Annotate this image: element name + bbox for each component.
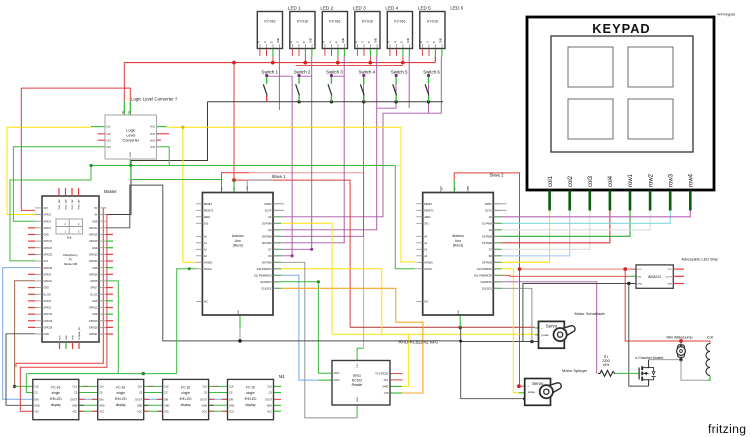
svg-text:-: - [541, 340, 542, 344]
svg-text:8*8 LED: 8*8 LED [180, 397, 193, 401]
svg-text:LED 5: LED 5 [418, 6, 431, 11]
svg-text:CLK: CLK [229, 386, 234, 389]
svg-text:GPIO2: GPIO2 [44, 214, 52, 217]
svg-text:ID_SC: ID_SC [90, 293, 97, 296]
svg-text:D10 PWM/SS: D10 PWM/SS [477, 268, 492, 271]
svg-text:FC-16: FC-16 [246, 385, 255, 389]
svg-text:3.3V: 3.3V [357, 363, 359, 368]
raspberry pi master box [42, 196, 99, 342]
svg-text:pulse: pulse [542, 333, 550, 337]
green stub RFID ANT2 from blue wire [318, 379, 332, 381]
wire purple switch2 into LED2 column [298, 74, 311, 77]
green stub Slave2 pin for keypad col3 [493, 248, 501, 250]
wire red branch down to mini waterpump and coil [625, 269, 710, 343]
gray stub Slave2 D0 [493, 203, 506, 205]
svg-text:CLK: CLK [34, 386, 39, 389]
svg-text:Adressable LED Strip: Adressable LED Strip [682, 258, 718, 262]
inductor coil L1 [706, 344, 710, 376]
wire red from LLC top pin2 around left to Raspberry Pi 3V3 [21, 88, 130, 210]
svg-text:Arduino: Arduino [232, 234, 244, 238]
svg-text:Switch 5: Switch 5 [391, 70, 408, 75]
svg-text:GND: GND [130, 152, 132, 157]
svg-text:VCC: VCC [267, 410, 272, 413]
green stub Slave1 bottom GND [239, 315, 241, 329]
svg-text:CTS: CTS [384, 392, 389, 395]
junction dot WS8212 VCC branch to pump [623, 267, 627, 271]
green stub Slave2 bottom GND [459, 315, 461, 328]
svg-text:DIN: DIN [34, 398, 38, 401]
svg-text:D0/RX: D0/RX [264, 203, 271, 206]
svg-text:HV4: HV4 [150, 146, 155, 149]
svg-text:D10 PWM/SS: D10 PWM/SS [257, 268, 272, 271]
svg-text:N/C: N/C [424, 301, 428, 304]
wire red Slave2 D11 to WS8212 DIN [501, 275, 629, 276]
svg-text:GND: GND [99, 404, 105, 407]
wire red riser from LLC top pin1 to red bus [123, 63, 125, 102]
svg-text:GND: GND [34, 404, 40, 407]
LED matrix module FC-16 #1 [33, 379, 79, 419]
svg-text:GPIO15: GPIO15 [89, 234, 98, 237]
svg-text:Switch 1: Switch 1 [261, 70, 278, 75]
svg-text:Logic: Logic [126, 129, 135, 133]
svg-text:CLK: CLK [202, 386, 207, 389]
wire black switch ground bus [208, 101, 444, 103]
wire red LED6 pin3 drop at right end of bus [434, 57, 436, 63]
svg-text:GND: GND [375, 38, 377, 43]
matrix module 1-2 chain wires [79, 385, 98, 387]
svg-text:G: G [427, 41, 429, 43]
raspberry pi right pins [99, 207, 106, 209]
svg-text:D9 PWM: D9 PWM [262, 261, 272, 264]
svg-text:D13/SCK: D13/SCK [262, 287, 272, 290]
wire green bus from LLC GND area to Slave2 [91, 165, 395, 167]
svg-text:ID_SD: ID_SD [44, 293, 51, 296]
wire yellow drop to Slave1 A4 [183, 127, 196, 262]
svg-text:4x4 Keypad: 4x4 Keypad [717, 13, 735, 17]
svg-text:RFID-RC522-v2 NFC: RFID-RC522-v2 NFC [399, 340, 439, 345]
matrix module 3-4 chain wires [209, 385, 228, 387]
svg-text:D1/TX: D1/TX [485, 209, 492, 212]
keypad 4x4 outer box [527, 17, 714, 190]
svg-text:LV2: LV2 [107, 133, 112, 136]
keypad key 2 [628, 47, 673, 87]
green stub Slave2 pin for keypad col2 [493, 255, 501, 257]
Slave 2 (U3) left pins [416, 203, 422, 205]
svg-text:FC-16: FC-16 [116, 385, 125, 389]
wire purple LED5 drop [408, 57, 410, 109]
Slave 1 (U2) left pins [196, 203, 202, 205]
LED module KY-016 LED 2 [290, 12, 315, 49]
svg-text:GPIO6: GPIO6 [44, 307, 52, 310]
wire purple switch1 to Slave1 D8 [267, 75, 292, 256]
svg-text:col4: col4 [608, 175, 614, 187]
junction dot green bus at x91 [89, 164, 92, 167]
svg-text:LV4: LV4 [107, 146, 112, 149]
svg-text:D3 PWM: D3 PWM [482, 222, 492, 225]
wire purple switch6 into LED6 run [428, 75, 430, 113]
junction dot servo2 GND [523, 397, 526, 400]
svg-text:CLK: CLK [164, 386, 169, 389]
svg-text:Model 4B: Model 4B [64, 262, 77, 266]
svg-text:HV1: HV1 [150, 126, 155, 129]
svg-text:LED 6: LED 6 [450, 6, 463, 11]
motor M4 mini waterpump [680, 341, 682, 345]
svg-text:G: G [297, 41, 299, 43]
green stub Slave2 pin for keypad row4 [493, 216, 501, 218]
resistor R1 220 ohm [598, 370, 615, 376]
svg-text:GND: GND [92, 247, 98, 250]
svg-text:GND: GND [92, 220, 98, 223]
svg-text:GPIO24: GPIO24 [89, 260, 98, 263]
svg-text:5V: 5V [95, 207, 98, 210]
svg-text:display: display [116, 403, 126, 407]
green stub Slave1 top pin1 [221, 179, 223, 192]
svg-text:CS: CS [99, 392, 103, 395]
mosfet body diode [649, 368, 654, 372]
svg-text:8*8 LED: 8*8 LED [115, 397, 128, 401]
svg-text:A5/SCL: A5/SCL [204, 268, 213, 271]
RFID RC522 reader [332, 361, 390, 406]
wire yellow RFID SDA riser to pulse bus [402, 334, 409, 386]
LLC top pin stubs [123, 102, 125, 115]
LED module KY-016 LED 5 [387, 12, 412, 49]
svg-text:GPIO10: GPIO10 [44, 267, 53, 270]
svg-text:D12/MISO: D12/MISO [260, 281, 271, 284]
raspberry pi bottom pins [59, 342, 61, 349]
wire gray Slave2 D13 down to servo1 GND row [501, 288, 532, 341]
svg-text:row3: row3 [668, 173, 674, 187]
svg-text:CS: CS [74, 392, 78, 395]
servo motor Motor Spiegel M3 [525, 379, 551, 406]
svg-text:GPIO25: GPIO25 [89, 273, 98, 276]
junction dot Slave1 5V [232, 178, 236, 182]
wire gray Slave1 GND to ground bus [239, 329, 241, 341]
wire green resistor to mosfet gate [615, 372, 639, 374]
Slave 2 (U3) right pins [493, 203, 499, 205]
LED module KY-016 LED 3 [322, 12, 347, 49]
wire blue Slave1 D11 MOSI to RFID [281, 275, 318, 380]
svg-text:TX-1: TX-1 [383, 379, 389, 382]
svg-text:GPIO26: GPIO26 [44, 327, 53, 330]
svg-text:single: single [117, 391, 126, 395]
green stub Slave2 pin for keypad col4 [493, 242, 501, 244]
wire red servo2 VCC junction [517, 384, 521, 388]
wire yellow Pi SDA to LLC LV1 [7, 127, 91, 214]
gray stub Slave2 top pin1 [440, 186, 442, 193]
junction dot on A5 wire [188, 267, 191, 270]
junction dot yellow bus [181, 126, 184, 129]
svg-text:CLK: CLK [99, 386, 104, 389]
svg-text:G: G [330, 41, 332, 43]
svg-text:Servo: Servo [532, 381, 544, 386]
svg-text:GND: GND [310, 38, 312, 43]
wire green LLC GND drop to bus [129, 159, 131, 166]
svg-text:GND: GND [73, 335, 75, 340]
svg-text:FC-16: FC-16 [51, 385, 60, 389]
svg-text:DOUT: DOUT [135, 398, 142, 401]
junction dot supply trunk at branch [518, 267, 522, 271]
green stub WS8212 DIN [629, 275, 636, 277]
svg-text:Logic Level Converter ?: Logic Level Converter ? [131, 97, 178, 102]
svg-text:GND: GND [92, 267, 98, 270]
svg-text:GND: GND [267, 404, 273, 407]
wire purple LED2 drop to Slave1 D7 [281, 57, 312, 250]
junction dot ground bus at slave2 column [459, 340, 462, 343]
svg-text:KY-016: KY-016 [394, 20, 405, 24]
svg-text:3V3: 3V3 [44, 260, 49, 263]
wire green bus drop to matrix CS [26, 374, 33, 393]
junction dot pump top [679, 339, 683, 343]
wire gray Slave2 GND down [461, 328, 525, 399]
svg-text:GND: GND [229, 404, 235, 407]
wire red 5V bus from logic level converter to LED modules [124, 62, 435, 64]
wire green Slave1 A5 down to matrix bus [177, 269, 196, 374]
svg-text:Master: Master [104, 189, 117, 194]
svg-text:±5%: ±5% [603, 363, 610, 367]
wire purple switch5 into LED4 column [377, 75, 396, 108]
wire green RFID 3.3V up to red riser [357, 348, 364, 360]
wire keypad row3 to Slave2 [501, 211, 670, 224]
svg-text:display: display [246, 403, 256, 407]
green stub RFID right pin3 [390, 385, 402, 387]
svg-text:Uno: Uno [235, 239, 241, 243]
wire dark ground bus from Pi to servos [106, 185, 461, 341]
wire red 5V bus second line [296, 64, 403, 66]
wire green branch toward Slave1 5V pin [131, 166, 222, 180]
wire keypad row2 to Slave2 [501, 211, 650, 230]
wire yellow servo pulse bus [332, 333, 513, 335]
wire green Slave1 D12 MISO to RFID [281, 282, 332, 373]
wire yellow LLC HV1 bus to arduino A4 pins [167, 127, 416, 262]
servo motor Motor Schublade M2 [539, 321, 565, 348]
svg-text:VCC: VCC [667, 269, 672, 271]
svg-text:LV3: LV3 [107, 139, 112, 142]
svg-text:8*8 LED: 8*8 LED [50, 397, 63, 401]
svg-text:CS: CS [204, 392, 208, 395]
svg-text:(Rev3): (Rev3) [233, 244, 243, 248]
junction dot D12 wire [317, 280, 320, 283]
gray stub Slave1 D1 [273, 209, 284, 211]
wire green drop to Slave2 A5 [395, 166, 415, 269]
wire green LLC right pin4 drop to bus [157, 147, 170, 166]
svg-text:8*8 LED: 8*8 LED [245, 397, 258, 401]
svg-text:VCC: VCC [34, 410, 39, 413]
svg-text:WS8212: WS8212 [648, 275, 661, 279]
svg-text:VCC: VCC [202, 410, 207, 413]
wire yellow into servo1 pulse [513, 333, 535, 335]
svg-text:VCC: VCC [229, 410, 234, 413]
svg-text:3V3: 3V3 [44, 207, 49, 210]
wire gray WS8212 GND trunk to mosfet source [629, 284, 649, 387]
svg-text:single: single [246, 391, 255, 395]
svg-text:3V3: 3V3 [204, 222, 209, 225]
svg-text:GND: GND [667, 284, 672, 286]
green stub coil bottom [708, 376, 710, 381]
svg-text:GPIO7: GPIO7 [90, 287, 98, 290]
svg-text:GND: GND [72, 404, 78, 407]
green stub LLC HV1 [157, 126, 167, 128]
svg-text:M1: M1 [279, 374, 285, 379]
svg-text:N/C: N/C [204, 301, 208, 304]
svg-text:VIN: VIN [468, 186, 470, 190]
svg-text:Uno: Uno [455, 239, 461, 243]
svg-text:RESET2: RESET2 [204, 209, 214, 212]
svg-text:RESET: RESET [424, 203, 433, 206]
svg-text:GPIO18: GPIO18 [89, 240, 98, 243]
svg-text:DOUT: DOUT [265, 398, 272, 401]
svg-text:ANT1: ANT1 [334, 372, 341, 375]
green stub Slave2 pin for keypad row1 [493, 235, 501, 237]
svg-text:Raspberry: Raspberry [63, 253, 78, 257]
arduino uno Slave 1 (U2) [202, 193, 273, 316]
junction dot green bus at x130.8 [129, 164, 132, 167]
svg-text:D11 PWM/MOSI: D11 PWM/MOSI [254, 274, 272, 277]
svg-text:CS: CS [229, 392, 233, 395]
red stub RFID right pin1 [390, 373, 403, 375]
svg-text:TR03_TAP: TR03_TAP [71, 199, 74, 210]
wire orange Slave1 D13 SCK to RFID [281, 288, 423, 393]
svg-text:Motor Schublade: Motor Schublade [575, 311, 606, 316]
svg-text:GND: GND [44, 287, 50, 290]
LED module 5 pin stubs [389, 49, 391, 56]
wire red Pi 5V pin2 loop to matrix VCC [20, 215, 107, 412]
svg-text:DIN: DIN [229, 398, 233, 401]
svg-text:(Rev3): (Rev3) [453, 244, 463, 248]
WS8212 LED strip driver [636, 265, 673, 288]
svg-text:D6 PWM: D6 PWM [262, 242, 272, 245]
svg-text:AREF: AREF [204, 216, 211, 219]
svg-text:D5 PWM: D5 PWM [262, 235, 272, 238]
svg-text:D12/MISO: D12/MISO [481, 281, 492, 284]
junction dot WS8212 GND [627, 282, 630, 285]
svg-text:Switch 6: Switch 6 [423, 70, 440, 75]
svg-text:row1: row1 [628, 173, 634, 187]
wire purple Slave2 D12 to gate resistor [501, 282, 597, 374]
svg-text:GPIO17: GPIO17 [44, 240, 53, 243]
svg-text:DOUT: DOUT [666, 276, 673, 278]
svg-text:5V: 5V [95, 214, 98, 217]
svg-text:GPIO23: GPIO23 [89, 253, 98, 256]
svg-text:AREF: AREF [424, 216, 431, 219]
wire purple LED3 drop to Slave1 D6 [281, 57, 344, 243]
svg-text:GND: GND [343, 38, 345, 43]
svg-text:GND: GND [202, 404, 208, 407]
junction dot pump bottom [679, 358, 682, 361]
LED module 4 pin stubs [356, 49, 358, 56]
svg-text:CLK: CLK [138, 386, 143, 389]
svg-text:CLK: CLK [267, 386, 272, 389]
svg-text:UART: UART [382, 385, 389, 388]
svg-text:display: display [51, 403, 61, 407]
svg-text:GPIO22: GPIO22 [44, 253, 53, 256]
svg-text:D1/TX: D1/TX [265, 209, 272, 212]
svg-text:col3: col3 [588, 175, 594, 187]
wire yellow Slave1 D3 to servo pulse run [281, 223, 332, 334]
svg-text:TR04_TAP: TR04_TAP [78, 199, 81, 210]
svg-text:KY-016: KY-016 [264, 20, 275, 24]
raspberry pi PoE header [56, 219, 83, 234]
green stub Slave1 top pin2 [233, 180, 235, 192]
wire purple LED4 drop to Slave1 D4 [281, 57, 377, 230]
svg-text:A4/SDA: A4/SDA [204, 261, 213, 264]
svg-text:CS: CS [139, 392, 143, 395]
svg-text:RESET: RESET [204, 203, 213, 206]
LED module KY-016 LED 4 [355, 12, 380, 49]
svg-text:D3 PWM: D3 PWM [262, 222, 272, 225]
wire green Pi 3V3 loop to bus [10, 166, 91, 261]
red stub servo2 VCC [520, 385, 525, 387]
svg-text:3V3: 3V3 [424, 222, 429, 225]
svg-text:GND: GND [137, 404, 143, 407]
svg-text:col2: col2 [568, 175, 574, 187]
green stub Slave2 D10 [493, 268, 501, 270]
svg-text:GND: GND [278, 38, 280, 43]
svg-text:G: G [395, 41, 397, 43]
wire red Pi 5V pin1 outer loop to matrix VCC [103, 207, 106, 209]
green stub servo2 pulse [519, 392, 525, 394]
keypad inner frame [551, 36, 693, 152]
svg-text:VCC: VCC [99, 410, 104, 413]
svg-text:GPIO19: GPIO19 [44, 320, 53, 323]
svg-text:G: G [265, 41, 267, 43]
wire gray ground branch to servo1 GND [461, 341, 539, 343]
arduino uno Slave 2 (U3) [423, 193, 494, 316]
svg-text:Reader: Reader [352, 383, 364, 387]
svg-text:KY-016: KY-016 [297, 20, 308, 24]
wire keypad col4 to Slave2 [501, 211, 610, 243]
svg-text:Switch 4: Switch 4 [358, 70, 375, 75]
wire green RFID bottom GND stub [356, 405, 358, 418]
svg-text:LV1: LV1 [107, 126, 112, 129]
junction dots on red bus at LED pin3 columns [271, 61, 275, 65]
junction dots on switch ground bus [297, 100, 300, 103]
svg-text:GND: GND [44, 234, 50, 237]
green stub Slave2 D12 [493, 281, 501, 283]
svg-text:GPIO11: GPIO11 [44, 280, 53, 283]
Slave 1 (U2) right pins [273, 203, 279, 205]
svg-text:Switch 3: Switch 3 [326, 70, 343, 75]
svg-text:Mini Waterpump: Mini Waterpump [667, 336, 693, 340]
svg-text:GND: GND [440, 38, 442, 43]
LED module KY-016 LED 1 [257, 12, 282, 49]
keypad key 4 [628, 99, 673, 139]
wire green into matrix CLK [15, 385, 33, 387]
svg-text:RUN: RUN [60, 335, 62, 340]
keypad key 1 [568, 47, 613, 87]
svg-text:GPIO21: GPIO21 [89, 333, 98, 336]
gray stub Slave2 top pin3 [467, 186, 469, 193]
svg-text:n-Channel Mosfet: n-Channel Mosfet [635, 356, 663, 360]
svg-text:CS: CS [269, 392, 273, 395]
svg-text:Switch 2: Switch 2 [294, 70, 311, 75]
svg-text:Arduino: Arduino [452, 234, 464, 238]
svg-text:GPIO12: GPIO12 [89, 307, 98, 310]
svg-text:VCC: VCC [137, 410, 142, 413]
svg-text:A5/SCL: A5/SCL [424, 268, 433, 271]
svg-text:KY-016: KY-016 [362, 20, 373, 24]
matrix module 4 right stubs [274, 385, 282, 387]
svg-text:KY-016: KY-016 [427, 20, 438, 24]
wire red Slave1 5V to motor supply run [234, 180, 350, 327]
svg-text:GPIO3: GPIO3 [44, 220, 52, 223]
svg-text:GND: GND [164, 404, 170, 407]
matrix module 2-3 chain wires [144, 385, 163, 387]
red stub RFID right pin2 [390, 379, 403, 381]
wire gray Pi GND to matrix GND [6, 334, 35, 406]
junction dot purple D8 [291, 254, 294, 257]
wire purple switch3 into LED3 column [331, 74, 344, 77]
LED module 1 pin stubs [259, 49, 261, 56]
